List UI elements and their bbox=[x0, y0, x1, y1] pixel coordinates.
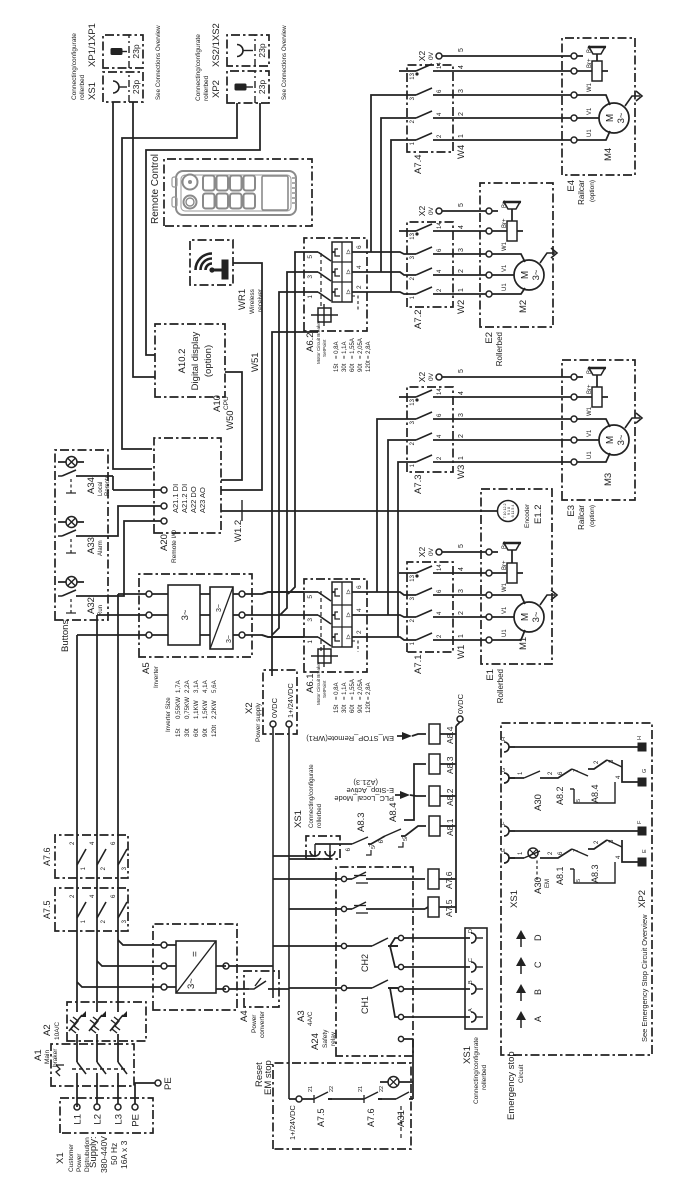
svg-text:Digital display: Digital display bbox=[190, 331, 201, 390]
svg-text:E2: E2 bbox=[484, 332, 495, 344]
svg-text:M: M bbox=[605, 436, 616, 444]
svg-text:5: 5 bbox=[576, 799, 582, 802]
svg-text:E: E bbox=[501, 848, 507, 852]
svg-text:A7.5: A7.5 bbox=[42, 900, 52, 919]
svg-text:2,2A: 2,2A bbox=[184, 679, 191, 693]
svg-text:XP1/1XP1: XP1/1XP1 bbox=[87, 23, 98, 67]
svg-text:2: 2 bbox=[356, 285, 363, 289]
svg-text:1+/24VDC: 1+/24VDC bbox=[286, 683, 295, 718]
svg-text:Connecting/configurate: Connecting/configurate bbox=[308, 764, 315, 828]
svg-text:23p: 23p bbox=[131, 80, 141, 94]
svg-text:1: 1 bbox=[458, 288, 465, 292]
svg-text:15t: 15t bbox=[334, 704, 340, 713]
svg-text:(option): (option) bbox=[589, 505, 596, 527]
svg-text:H: H bbox=[637, 736, 643, 740]
svg-text:A21.1 DI: A21.1 DI bbox=[171, 484, 180, 513]
svg-text:Remote: Remote bbox=[105, 474, 111, 496]
svg-text:A7.6: A7.6 bbox=[366, 1108, 376, 1127]
svg-text:5: 5 bbox=[307, 595, 314, 599]
svg-text:Alarm: Alarm bbox=[98, 540, 104, 556]
svg-text:W1: W1 bbox=[587, 406, 593, 416]
svg-text:5: 5 bbox=[458, 203, 465, 207]
svg-text:= 0,8A: = 0,8A bbox=[334, 341, 340, 359]
svg-text:1: 1 bbox=[307, 640, 314, 644]
svg-text:M1: M1 bbox=[518, 637, 529, 650]
svg-text:A8.4: A8.4 bbox=[388, 802, 399, 822]
svg-text:I>: I> bbox=[347, 269, 353, 275]
svg-text:= 0,8A: = 0,8A bbox=[334, 682, 340, 700]
svg-text:I>: I> bbox=[347, 589, 353, 595]
svg-text:3: 3 bbox=[307, 618, 314, 622]
svg-text:A33: A33 bbox=[86, 537, 97, 554]
svg-text:A8.2: A8.2 bbox=[445, 788, 455, 806]
svg-text:XS1: XS1 bbox=[293, 810, 304, 828]
svg-text:M2: M2 bbox=[518, 300, 529, 313]
svg-text:15t: 15t bbox=[334, 363, 340, 372]
svg-text:60t: 60t bbox=[193, 728, 200, 737]
svg-text:120t: 120t bbox=[211, 725, 218, 737]
svg-text:EM stop: EM stop bbox=[263, 1060, 274, 1095]
svg-text:120t: 120t bbox=[366, 360, 372, 372]
svg-text:I>: I> bbox=[347, 612, 353, 618]
svg-text:= 2,8A: = 2,8A bbox=[366, 682, 372, 700]
svg-text:A24: A24 bbox=[310, 1033, 321, 1050]
svg-text:A6.1: A6.1 bbox=[305, 673, 316, 693]
svg-text:A7.6: A7.6 bbox=[444, 871, 454, 889]
svg-text:C: C bbox=[533, 961, 543, 968]
svg-text:CH2: CH2 bbox=[360, 954, 370, 972]
svg-text:M: M bbox=[605, 114, 616, 122]
svg-text:A31: A31 bbox=[396, 1110, 407, 1127]
svg-text:14: 14 bbox=[437, 222, 443, 229]
svg-text:I>: I> bbox=[347, 634, 353, 640]
svg-text:CH1: CH1 bbox=[360, 996, 370, 1014]
svg-text:L2: L2 bbox=[93, 1114, 104, 1125]
svg-text:rollerbed: rollerbed bbox=[79, 74, 86, 100]
svg-text:A7.1: A7.1 bbox=[413, 654, 424, 674]
svg-text:1,7A: 1,7A bbox=[175, 679, 182, 693]
svg-text:2: 2 bbox=[356, 630, 363, 634]
svg-text:A8.2: A8.2 bbox=[555, 786, 565, 805]
svg-text:XS1: XS1 bbox=[509, 890, 520, 908]
svg-text:X1: X1 bbox=[55, 1152, 66, 1164]
svg-text:23p: 23p bbox=[131, 44, 141, 58]
svg-text:G: G bbox=[642, 769, 648, 773]
svg-text:= 2,05A: = 2,05A bbox=[358, 338, 364, 359]
svg-text:M4: M4 bbox=[603, 148, 614, 161]
svg-text:W1: W1 bbox=[502, 241, 508, 251]
svg-text:W50: W50 bbox=[225, 410, 236, 430]
svg-text:PE: PE bbox=[131, 1114, 142, 1127]
svg-text:3~: 3~ bbox=[226, 635, 233, 643]
svg-text:A21.2 DI: A21.2 DI bbox=[180, 484, 189, 513]
svg-text:A32: A32 bbox=[86, 597, 97, 614]
svg-text:= 2,05A: = 2,05A bbox=[358, 679, 364, 700]
svg-text:E: E bbox=[642, 849, 648, 853]
svg-text:XP2: XP2 bbox=[211, 80, 222, 98]
svg-text:X2: X2 bbox=[417, 51, 427, 62]
svg-text:U1: U1 bbox=[587, 129, 593, 137]
svg-text:Local: Local bbox=[98, 482, 104, 496]
svg-text:380-440V: 380-440V bbox=[99, 1136, 109, 1173]
svg-text:X2: X2 bbox=[244, 702, 255, 714]
svg-text:U1: U1 bbox=[587, 451, 593, 459]
svg-text:90t: 90t bbox=[202, 728, 209, 737]
svg-text:1,5KW: 1,5KW bbox=[202, 700, 209, 719]
svg-text:Run: Run bbox=[98, 605, 104, 616]
svg-text:See Connections Overview: See Connections Overview bbox=[281, 25, 288, 100]
svg-text:Buttons: Buttons bbox=[60, 620, 71, 652]
svg-text:3,1A: 3,1A bbox=[193, 679, 200, 693]
svg-text:XS1: XS1 bbox=[87, 82, 98, 100]
svg-text:E1: E1 bbox=[485, 669, 496, 681]
svg-text:I>: I> bbox=[347, 249, 353, 255]
svg-text:1: 1 bbox=[458, 134, 465, 138]
svg-text:21: 21 bbox=[358, 1086, 364, 1092]
svg-text:5: 5 bbox=[458, 544, 465, 548]
svg-text:A8.3: A8.3 bbox=[356, 812, 367, 832]
svg-text:2: 2 bbox=[458, 434, 465, 438]
svg-text:3: 3 bbox=[458, 248, 465, 252]
svg-text:3: 3 bbox=[458, 89, 465, 93]
svg-text:2: 2 bbox=[458, 269, 465, 273]
svg-text:3: 3 bbox=[458, 589, 465, 593]
svg-text:Wireless: Wireless bbox=[249, 288, 256, 314]
svg-text:60t: 60t bbox=[350, 363, 356, 372]
svg-text:A1: A1 bbox=[33, 1049, 44, 1061]
svg-text:3~: 3~ bbox=[616, 434, 627, 445]
svg-text:90t: 90t bbox=[358, 363, 364, 372]
svg-text:5: 5 bbox=[576, 879, 582, 882]
svg-text:3: 3 bbox=[458, 413, 465, 417]
svg-text:4,1A: 4,1A bbox=[202, 679, 209, 693]
svg-text:L1: L1 bbox=[73, 1114, 84, 1125]
svg-text:H: H bbox=[501, 737, 507, 741]
svg-text:A23 AO: A23 AO bbox=[198, 487, 207, 513]
svg-text:4: 4 bbox=[356, 265, 363, 269]
svg-text:A34: A34 bbox=[86, 477, 97, 494]
svg-text:5: 5 bbox=[371, 846, 377, 849]
svg-text:30t: 30t bbox=[342, 704, 348, 713]
svg-text:60t: 60t bbox=[350, 704, 356, 713]
svg-text:Customer: Customer bbox=[68, 1143, 75, 1172]
svg-text:15t: 15t bbox=[175, 728, 182, 737]
svg-text:23p: 23p bbox=[257, 43, 267, 57]
svg-text:SetPoint: SetPoint bbox=[322, 339, 327, 357]
svg-text:A7.6: A7.6 bbox=[42, 847, 52, 866]
svg-text:WR1: WR1 bbox=[237, 289, 248, 310]
svg-text:2,2KW: 2,2KW bbox=[211, 700, 218, 719]
svg-text:E3: E3 bbox=[566, 505, 577, 517]
svg-text:V1: V1 bbox=[502, 606, 508, 614]
svg-text:4: 4 bbox=[458, 225, 465, 229]
svg-text:A7.3: A7.3 bbox=[413, 474, 424, 494]
svg-text:1+/24VDC: 1+/24VDC bbox=[288, 1105, 297, 1140]
svg-text:A8.4: A8.4 bbox=[445, 726, 455, 744]
svg-text:2: 2 bbox=[458, 112, 465, 116]
svg-text:(option): (option) bbox=[203, 345, 214, 377]
svg-text:receiver: receiver bbox=[257, 288, 264, 312]
svg-text:14: 14 bbox=[437, 62, 443, 69]
svg-text:A4: A4 bbox=[239, 1010, 250, 1022]
svg-text:Railcar: Railcar bbox=[577, 180, 586, 205]
svg-text:braker: braker bbox=[52, 1048, 59, 1067]
svg-text:Supply:: Supply: bbox=[88, 1136, 99, 1168]
svg-text:50 Hz: 50 Hz bbox=[109, 1143, 119, 1165]
svg-text:XS1: XS1 bbox=[462, 1046, 473, 1064]
svg-text:4: 4 bbox=[458, 65, 465, 69]
svg-text:rollerbed: rollerbed bbox=[316, 803, 323, 828]
svg-text:5: 5 bbox=[403, 838, 409, 841]
svg-text:A8.1: A8.1 bbox=[555, 866, 565, 885]
svg-text:1: 1 bbox=[458, 456, 465, 460]
svg-text:A8.1: A8.1 bbox=[445, 818, 455, 836]
svg-text:30t: 30t bbox=[342, 363, 348, 372]
svg-text:V1: V1 bbox=[587, 429, 593, 437]
svg-text:30t: 30t bbox=[184, 728, 191, 737]
svg-text:Connecting/configurate: Connecting/configurate bbox=[71, 33, 78, 100]
svg-text:23p: 23p bbox=[257, 80, 267, 94]
svg-text:Encoder: Encoder bbox=[524, 503, 531, 528]
svg-text:Connecting/configurate: Connecting/configurate bbox=[473, 1037, 480, 1104]
svg-text:3: 3 bbox=[307, 275, 314, 279]
svg-text:converter: converter bbox=[259, 1010, 266, 1038]
svg-text:3~: 3~ bbox=[186, 978, 197, 989]
svg-text:16A x 3: 16A x 3 bbox=[119, 1140, 129, 1169]
svg-text:Inverter: Inverter bbox=[153, 665, 160, 688]
svg-text:A7.5: A7.5 bbox=[444, 899, 454, 917]
svg-text:V1: V1 bbox=[502, 264, 508, 272]
svg-text:SetPoint: SetPoint bbox=[322, 680, 327, 698]
svg-text:W51: W51 bbox=[250, 352, 261, 372]
svg-text:22: 22 bbox=[329, 1086, 335, 1092]
svg-text:Power: Power bbox=[76, 1153, 83, 1172]
svg-text:W3: W3 bbox=[456, 465, 467, 479]
svg-text:5: 5 bbox=[458, 48, 465, 52]
svg-text:W1: W1 bbox=[587, 82, 593, 92]
svg-text:14: 14 bbox=[437, 388, 443, 395]
svg-text:Remote I/O: Remote I/O bbox=[171, 530, 178, 563]
svg-text:A: A bbox=[533, 1016, 543, 1022]
svg-text:EM_STOP_Remote(WR1): EM_STOP_Remote(WR1) bbox=[306, 734, 394, 743]
svg-text:W1: W1 bbox=[502, 582, 508, 592]
svg-text:1: 1 bbox=[307, 295, 314, 299]
svg-text:13: 13 bbox=[410, 398, 416, 405]
svg-text:21: 21 bbox=[308, 1086, 314, 1092]
svg-text:EM: EM bbox=[545, 879, 551, 888]
svg-text:V1: V1 bbox=[587, 107, 593, 115]
svg-text:Safety: Safety bbox=[322, 1029, 329, 1048]
svg-text:W1: W1 bbox=[456, 645, 467, 659]
svg-text:G: G bbox=[501, 768, 507, 772]
svg-text:6: 6 bbox=[356, 245, 363, 249]
svg-text:4: 4 bbox=[458, 567, 465, 571]
svg-text:Circuit: Circuit bbox=[518, 1064, 525, 1083]
svg-text:rollerbed: rollerbed bbox=[203, 75, 210, 101]
svg-text:90t: 90t bbox=[358, 704, 364, 713]
svg-text:A3: A3 bbox=[296, 1010, 307, 1022]
svg-text:5,6A: 5,6A bbox=[211, 679, 218, 693]
svg-text:0V: 0V bbox=[428, 372, 435, 381]
svg-text:Connecting/configurate: Connecting/configurate bbox=[195, 34, 202, 101]
svg-text:C: C bbox=[468, 958, 474, 962]
svg-text:PE: PE bbox=[163, 1077, 174, 1090]
svg-text:B: B bbox=[533, 989, 543, 995]
svg-text:L3: L3 bbox=[114, 1114, 125, 1125]
svg-text:6: 6 bbox=[356, 585, 363, 589]
svg-text:A: A bbox=[468, 1008, 474, 1012]
svg-text:A7.5: A7.5 bbox=[316, 1108, 326, 1127]
svg-text:M: M bbox=[520, 271, 531, 279]
svg-text:Rollerbed: Rollerbed bbox=[495, 332, 504, 366]
svg-text:XS2/1XS2: XS2/1XS2 bbox=[211, 23, 222, 67]
svg-text:0,75KW: 0,75KW bbox=[184, 697, 191, 719]
svg-text:A30: A30 bbox=[533, 877, 544, 894]
svg-text:0VDC: 0VDC bbox=[456, 693, 465, 714]
svg-text:A10: A10 bbox=[212, 395, 223, 412]
svg-text:1,1KW: 1,1KW bbox=[193, 700, 200, 719]
svg-text:0VDC: 0VDC bbox=[270, 697, 279, 718]
svg-text:3~: 3~ bbox=[216, 604, 223, 612]
svg-text:Emergency stop: Emergency stop bbox=[506, 1051, 517, 1120]
svg-text:(A21.3): (A21.3) bbox=[353, 778, 378, 787]
svg-text:X2: X2 bbox=[417, 547, 427, 558]
svg-text:5: 5 bbox=[458, 369, 465, 373]
svg-text:XP2: XP2 bbox=[637, 890, 648, 908]
svg-text:4: 4 bbox=[458, 391, 465, 395]
svg-text:13: 13 bbox=[410, 574, 416, 581]
svg-text:B: B bbox=[468, 980, 474, 984]
svg-text:U1: U1 bbox=[502, 629, 508, 637]
svg-text:= 1,1A: = 1,1A bbox=[342, 682, 348, 700]
svg-text:W2: W2 bbox=[456, 300, 467, 314]
svg-text:A8.4: A8.4 bbox=[590, 784, 600, 803]
svg-text:0V: 0V bbox=[428, 547, 435, 556]
svg-text:X2: X2 bbox=[417, 206, 427, 217]
svg-text:3~: 3~ bbox=[531, 269, 542, 280]
svg-text:Remote Control: Remote Control bbox=[150, 154, 161, 224]
svg-text:X2: X2 bbox=[417, 372, 427, 383]
svg-text:13: 13 bbox=[410, 232, 416, 239]
svg-text:1: 1 bbox=[458, 634, 465, 638]
svg-text:2: 2 bbox=[458, 611, 465, 615]
svg-text:Motor Circuit Breaker: Motor Circuit Breaker bbox=[316, 661, 321, 705]
svg-text:Railcar: Railcar bbox=[577, 505, 586, 530]
svg-text:E4: E4 bbox=[566, 180, 577, 192]
svg-text:U1: U1 bbox=[502, 283, 508, 291]
svg-text:22: 22 bbox=[379, 1086, 385, 1092]
svg-text:Power: Power bbox=[251, 1014, 258, 1033]
svg-text:A22 DO: A22 DO bbox=[189, 486, 198, 513]
svg-text:M3: M3 bbox=[603, 473, 614, 486]
svg-text:= 1,1A: = 1,1A bbox=[342, 341, 348, 359]
svg-text:CPU: CPU bbox=[223, 396, 230, 410]
svg-text:See Emergency Stop Circuit Ove: See Emergency Stop Circuit Overview bbox=[640, 914, 649, 1042]
svg-text:D: D bbox=[533, 934, 543, 941]
svg-text:Motor Circuit Breaker: Motor Circuit Breaker bbox=[316, 320, 321, 364]
svg-text:4A/C: 4A/C bbox=[307, 1011, 314, 1026]
svg-text:I>: I> bbox=[347, 289, 353, 295]
svg-text:Rollerbed: Rollerbed bbox=[496, 669, 505, 703]
svg-text:13: 13 bbox=[410, 72, 416, 79]
svg-text:A2: A2 bbox=[42, 1024, 53, 1036]
svg-text:W1.2: W1.2 bbox=[233, 520, 244, 542]
svg-text:D: D bbox=[468, 929, 474, 933]
svg-text:A8.3: A8.3 bbox=[445, 756, 455, 774]
svg-text:=: = bbox=[190, 951, 201, 957]
svg-text:120t: 120t bbox=[366, 701, 372, 713]
svg-text:0V: 0V bbox=[428, 51, 435, 60]
svg-text:Main: Main bbox=[44, 1050, 51, 1064]
svg-text:0,55KW: 0,55KW bbox=[175, 697, 182, 719]
svg-text:= 1,55A: = 1,55A bbox=[350, 679, 356, 700]
svg-text:Inverter Size: Inverter Size bbox=[165, 697, 172, 732]
svg-text:5: 5 bbox=[307, 255, 314, 259]
svg-text:6 11 5 4: 6 11 5 4 bbox=[511, 505, 515, 518]
svg-text:relay: relay bbox=[330, 1031, 337, 1046]
svg-text:M: M bbox=[520, 613, 531, 621]
svg-text:Power supply: Power supply bbox=[255, 702, 262, 742]
svg-text:A30: A30 bbox=[533, 794, 544, 811]
svg-text:0V: 0V bbox=[428, 206, 435, 215]
svg-text:10A/C: 10A/C bbox=[54, 1022, 61, 1040]
svg-text:4: 4 bbox=[356, 608, 363, 612]
svg-text:A5: A5 bbox=[141, 662, 152, 674]
svg-text:14: 14 bbox=[437, 564, 443, 571]
svg-text:A7.4: A7.4 bbox=[413, 154, 424, 174]
svg-text:A6.2: A6.2 bbox=[305, 332, 316, 352]
svg-text:= 2,8A: = 2,8A bbox=[366, 341, 372, 359]
svg-text:A20: A20 bbox=[159, 534, 170, 551]
svg-text:A10.2: A10.2 bbox=[177, 349, 188, 374]
svg-text:3~: 3~ bbox=[616, 112, 627, 123]
svg-text:A8.3: A8.3 bbox=[590, 864, 600, 883]
svg-text:E1.2: E1.2 bbox=[533, 504, 544, 524]
svg-text:See Connections Overview: See Connections Overview bbox=[155, 25, 162, 100]
svg-text:3~: 3~ bbox=[180, 609, 191, 620]
svg-text:A7.2: A7.2 bbox=[413, 309, 424, 329]
svg-text:3~: 3~ bbox=[531, 611, 542, 622]
svg-text:(option): (option) bbox=[589, 180, 596, 202]
svg-text:rollerbed: rollerbed bbox=[481, 1064, 488, 1090]
svg-text:= 1,55A: = 1,55A bbox=[350, 338, 356, 359]
svg-text:W4: W4 bbox=[456, 145, 467, 159]
